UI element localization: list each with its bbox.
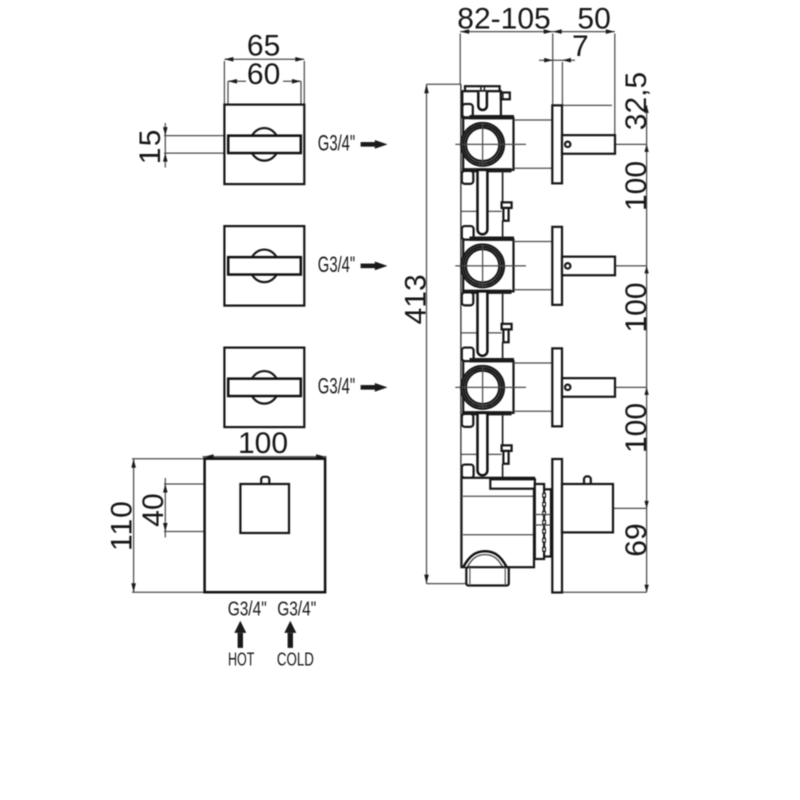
svg-text:100: 100 — [620, 161, 653, 211]
svg-text:100: 100 — [620, 282, 653, 332]
svg-text:82-105: 82-105 — [457, 3, 550, 36]
svg-text:100: 100 — [238, 427, 288, 460]
svg-text:100: 100 — [620, 403, 653, 453]
svg-text:40: 40 — [137, 493, 170, 526]
svg-text:HOT: HOT — [228, 649, 255, 670]
svg-text:COLD: COLD — [277, 649, 314, 670]
svg-text:G3/4": G3/4" — [318, 374, 355, 399]
svg-text:7: 7 — [572, 30, 589, 63]
svg-text:60: 60 — [247, 58, 280, 91]
svg-text:69: 69 — [620, 523, 653, 556]
svg-text:15: 15 — [134, 128, 167, 164]
svg-text:G3/4": G3/4" — [318, 131, 355, 156]
svg-text:G3/4": G3/4" — [277, 598, 316, 620]
svg-text:413: 413 — [399, 274, 432, 324]
svg-text:G3/4": G3/4" — [318, 252, 355, 277]
svg-text:110: 110 — [106, 500, 139, 551]
svg-text:32,5: 32,5 — [620, 72, 653, 130]
svg-text:G3/4": G3/4" — [228, 598, 267, 620]
